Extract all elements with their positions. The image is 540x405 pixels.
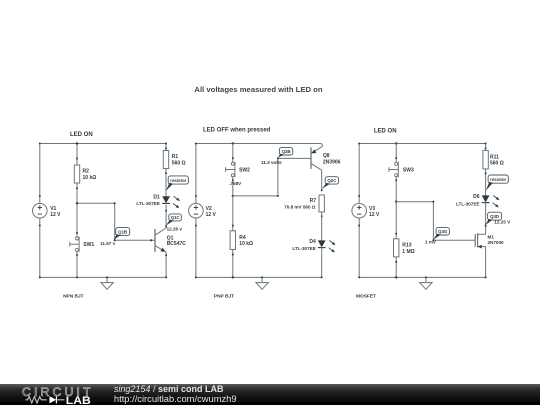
svg-text:Q8: Q8 [323,153,330,159]
svg-text:http://circuitlab.com/cwumzh9: http://circuitlab.com/cwumzh9 [114,394,237,404]
svg-text:Q2B: Q2B [282,149,291,154]
svg-text:70.8 mV 560 Ω: 70.8 mV 560 Ω [284,205,316,210]
svg-text:D4: D4 [309,239,316,245]
svg-text:11.57 v: 11.57 v [100,241,116,246]
svg-text:SW2: SW2 [239,168,250,174]
svg-text:2N3906: 2N3906 [323,159,341,165]
svg-text:R4: R4 [239,235,246,241]
svg-text:LED ON: LED ON [374,128,397,134]
svg-text:12 V: 12 V [50,212,61,218]
svg-text:M1: M1 [488,234,495,239]
svg-text:LTL-307EE: LTL-307EE [136,201,159,206]
svg-text:SW3: SW3 [403,168,414,174]
svg-text:12.25 V: 12.25 V [494,220,511,225]
svg-text:R11: R11 [490,154,499,160]
svg-text:PNP BJT: PNP BJT [214,294,234,300]
svg-text:R13: R13 [402,243,411,249]
svg-text:1 mV: 1 mV [425,240,437,245]
svg-text:sing2154 / semi cond LAB: sing2154 / semi cond LAB [114,384,224,394]
svg-text:Q3G: Q3G [438,229,448,234]
svg-text:Q3D: Q3D [490,214,499,219]
svg-text:Q2C: Q2C [327,178,337,183]
svg-text:LED ON: LED ON [70,132,93,138]
svg-text:560 Ω: 560 Ω [172,160,186,166]
svg-text:R7: R7 [310,198,317,204]
svg-text:All voltages measured with LED: All voltages measured with LED on [194,85,322,94]
svg-text:10 kΩ: 10 kΩ [83,175,97,181]
svg-text:V3: V3 [369,206,375,212]
svg-text:MOSFET: MOSFET [356,294,376,300]
svg-text:11.3 volts: 11.3 volts [261,160,282,165]
svg-text:2N7000: 2N7000 [488,240,505,245]
svg-text:.758V: .758V [229,181,242,186]
svg-text:resistor: resistor [490,177,506,182]
svg-text:LTL-307EE: LTL-307EE [456,201,479,206]
svg-text:BC547C: BC547C [167,241,187,247]
svg-text:R2: R2 [83,169,90,175]
svg-text:12 V: 12 V [206,212,217,218]
svg-text:R1: R1 [172,154,179,160]
svg-text:10 kΩ: 10 kΩ [239,241,253,247]
svg-text:V1: V1 [50,206,56,212]
svg-text:12.26 v: 12.26 v [167,226,183,231]
svg-text:SW1: SW1 [83,242,94,248]
svg-text:Q1B: Q1B [118,229,127,234]
svg-text:560 Ω: 560 Ω [490,161,504,167]
svg-text:V2: V2 [206,206,212,212]
svg-text:NPN BJT: NPN BJT [63,294,84,300]
svg-text:12 V: 12 V [369,212,380,218]
svg-text:D1: D1 [153,194,160,200]
svg-text:resistor: resistor [170,178,186,183]
svg-text:LTL-307EE: LTL-307EE [292,246,315,251]
svg-text:Q1C: Q1C [171,215,181,220]
svg-text:1 MΩ: 1 MΩ [402,249,414,255]
svg-text:LED OFF when pressed: LED OFF when pressed [203,128,271,134]
svg-text:D6: D6 [473,194,480,200]
svg-text:LAB: LAB [66,395,91,405]
